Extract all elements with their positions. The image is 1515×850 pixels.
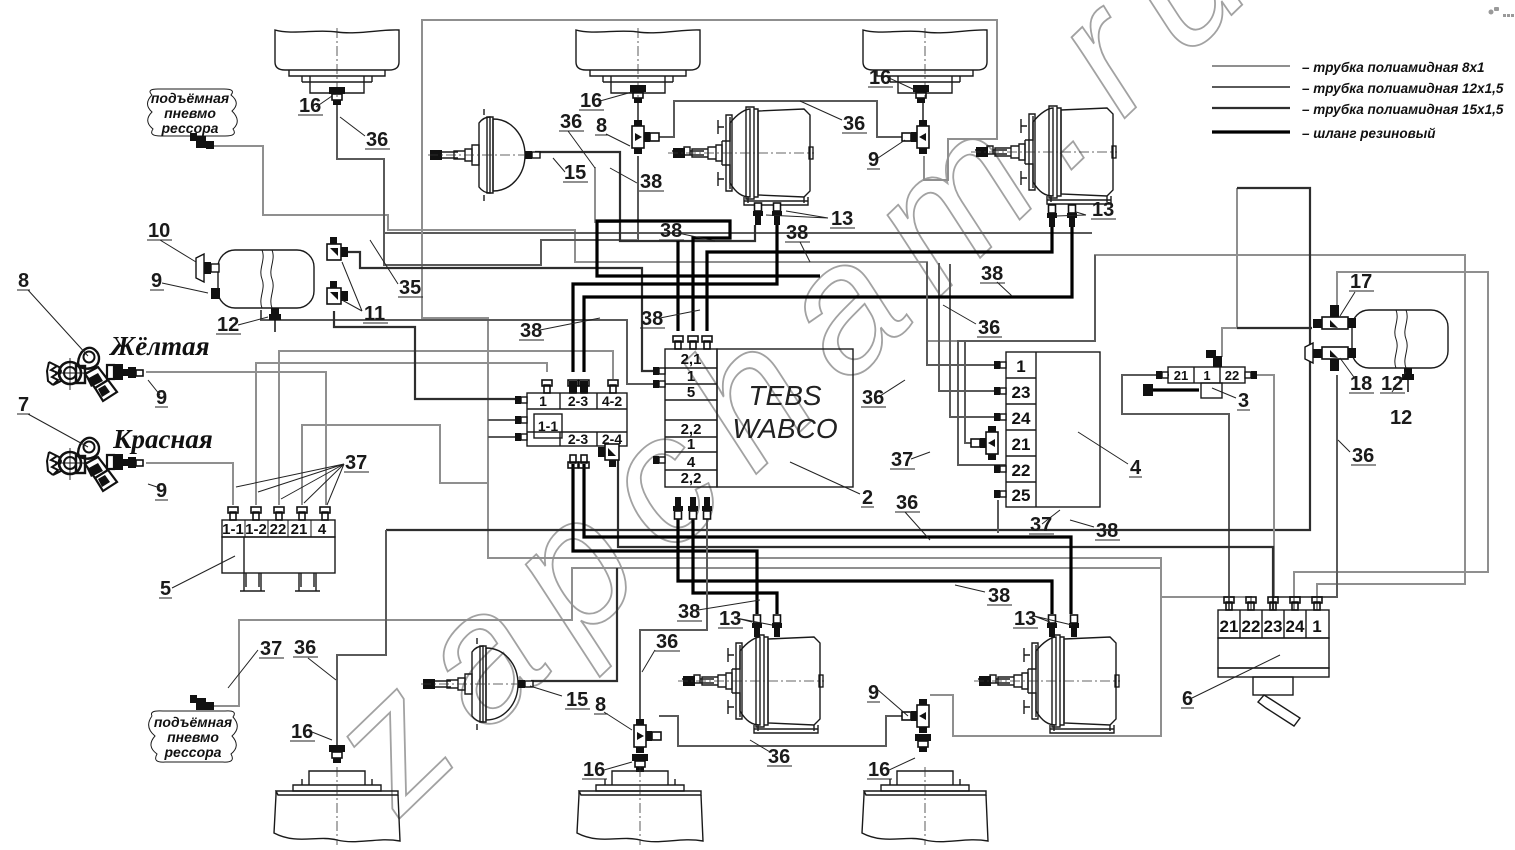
pipe gray to TEBS port 5 (261, 310, 657, 384)
svg-text:38: 38 (786, 222, 808, 244)
spring chamber top right (971, 106, 1117, 204)
svg-text:12: 12 (1390, 407, 1412, 429)
svg-text:37: 37 (260, 638, 282, 660)
svg-text:9: 9 (156, 480, 167, 502)
tank right drain 12 (1402, 368, 1414, 392)
svg-text:1-2: 1-2 (245, 521, 267, 538)
svg-text:– трубка полиамидная 12х1,5: – трубка полиамидная 12х1,5 (1302, 81, 1504, 96)
svg-text:36: 36 (560, 111, 582, 133)
svg-text:9: 9 (868, 682, 879, 704)
logo dots top right (1489, 7, 1515, 17)
pipe block bottom to bottom mid chamber port1 (573, 464, 757, 614)
svg-text:8: 8 (596, 115, 607, 137)
svg-text:16: 16 (869, 67, 891, 89)
coupling head red 7 (47, 438, 143, 491)
air tank left (218, 250, 314, 308)
pillar 13 top middle chamber (753, 203, 763, 225)
pillar 13 top right chamber (1047, 205, 1057, 227)
pipe block stub to top right chamber port2 (584, 225, 1072, 372)
svg-text:10: 10 (148, 220, 170, 242)
svg-text:37: 37 (345, 452, 367, 474)
diaphragm chamber bottom left 15 (421, 638, 533, 730)
pipe valve3 top elbow to tee17 (1222, 188, 1312, 357)
svg-text:25: 25 (1012, 486, 1031, 505)
pipe block stub to top right chamber port1 (573, 225, 777, 372)
svg-text:2: 2 (862, 487, 873, 509)
pipe elbow11 lower to block port1 (334, 311, 527, 399)
oval callout bottom (149, 711, 238, 762)
air bellows middle (576, 28, 700, 98)
wheel drum bottom right (862, 767, 988, 845)
svg-text:38: 38 (660, 220, 682, 242)
svg-text:2-3: 2-3 (568, 431, 588, 447)
svg-text:36: 36 (768, 746, 790, 768)
svg-text:9: 9 (151, 270, 162, 292)
svg-text:– шланг резиновый: – шланг резиновый (1302, 126, 1436, 141)
svg-text:пневмо: пневмо (167, 729, 219, 745)
svg-text:21: 21 (1174, 368, 1188, 383)
fitting 16 bottom left drum (329, 745, 345, 763)
tank fitting 9 (211, 288, 220, 299)
diaphragm chamber top left 15 (428, 109, 540, 201)
svg-text:36: 36 (294, 637, 316, 659)
svg-text:7: 7 (18, 394, 29, 416)
park valve 6 (1218, 597, 1329, 726)
tank right tee 18 (1305, 343, 1356, 371)
svg-text:21: 21 (1220, 617, 1239, 636)
pipe 36 middle-right bellows bus (638, 101, 923, 137)
pipe bottom mid chamber15 line (531, 568, 617, 681)
svg-text:13: 13 (1092, 199, 1114, 221)
svg-text:16: 16 (583, 759, 605, 781)
tee 9 right top (902, 120, 929, 154)
svg-text:2-3: 2-3 (568, 393, 588, 409)
pipe valve3 left port line (1122, 375, 1229, 610)
tee 8 bottom middle (634, 719, 661, 753)
pipe gray stub 36 near chamber15 (595, 167, 638, 240)
svg-text:– трубка полиамидная 15х1,5: – трубка полиамидная 15х1,5 (1302, 102, 1504, 117)
tank fitting 10 (196, 254, 219, 282)
pipe TEBS stub3 to top middle chamber port2 (707, 225, 1052, 331)
pipe block left side stubs (488, 420, 515, 437)
tee 8 middle top (632, 120, 659, 154)
pipe valve3 port22 down (1254, 375, 1274, 597)
TEBS modulator 2 (653, 336, 853, 519)
svg-text:5: 5 (687, 384, 695, 401)
svg-text:21: 21 (291, 521, 308, 538)
svg-text:23: 23 (1012, 383, 1031, 402)
svg-text:38: 38 (641, 308, 663, 330)
svg-text:9: 9 (156, 387, 167, 409)
pipe red coupling line to manifold port 1-1 (146, 463, 233, 505)
fitting 16 middle bellows (630, 85, 646, 103)
spring chamber bottom right (974, 635, 1120, 733)
svg-text:35: 35 (399, 277, 421, 299)
spring chamber top middle (668, 107, 814, 205)
fitting 16 bottom right (915, 734, 931, 752)
svg-text:3: 3 (1238, 390, 1249, 412)
svg-text:36: 36 (366, 129, 388, 151)
svg-text:пневмо: пневмо (164, 105, 216, 121)
pipe TEBS stub2 zig to top middle chamber port (597, 221, 820, 331)
pipe manifold riser 21 (302, 425, 488, 505)
svg-text:1-1: 1-1 (222, 521, 244, 538)
svg-text:1: 1 (687, 368, 695, 385)
air tank right (1352, 310, 1448, 368)
pipe tee8 to tee9 link bottom (659, 716, 903, 746)
svg-text:1: 1 (1016, 357, 1025, 376)
pipe 37 lift axle line top (polyamide 8x1) long snake to park valve port 1 (205, 146, 1465, 610)
svg-text:37: 37 (1030, 514, 1052, 536)
svg-text:22: 22 (270, 521, 287, 538)
watermark zapcham.ru (286, 0, 1305, 847)
svg-text:Жёлтая: Жёлтая (108, 331, 209, 361)
manifold 5 (222, 507, 335, 591)
svg-text:38: 38 (678, 601, 700, 623)
svg-text:1: 1 (1312, 617, 1321, 636)
elbow above bottom oval (190, 695, 214, 710)
svg-text:16: 16 (868, 759, 890, 781)
pipe air tank to TEBS port 1 supply (346, 252, 655, 371)
svg-text:21: 21 (1012, 435, 1031, 454)
svg-text:38: 38 (1096, 520, 1118, 542)
svg-text:22: 22 (1012, 461, 1031, 480)
pipe manifold riser 1-2 to block top (256, 363, 547, 505)
svg-text:подъёмная: подъёмная (151, 90, 229, 106)
svg-text:22: 22 (1225, 368, 1239, 383)
tank right tee 17 (1313, 305, 1356, 329)
svg-text:13: 13 (1014, 608, 1036, 630)
svg-text:4-2: 4-2 (602, 393, 622, 409)
spring chamber bottom middle (678, 635, 824, 733)
svg-text:24: 24 (1286, 617, 1305, 636)
coupling head yellow 8 (47, 348, 143, 401)
pipe yellow coupling line to manifold port 4 (146, 372, 326, 505)
svg-text:4: 4 (687, 454, 696, 471)
svg-text:– трубка полиамидная 8х1: – трубка полиамидная 8х1 (1302, 60, 1485, 75)
svg-text:1: 1 (1203, 368, 1210, 383)
valve 3 (1143, 350, 1257, 398)
valve block 4 (971, 352, 1100, 507)
svg-text:подъёмная: подъёмная (154, 714, 232, 730)
svg-text:16: 16 (291, 721, 313, 743)
svg-text:12: 12 (217, 314, 239, 336)
pipe bottom left oval 37 line (205, 568, 1161, 736)
svg-text:16: 16 (580, 90, 602, 112)
wheel drum bottom middle (577, 767, 703, 845)
pipe chamber15 top to TEBS 2.1 (535, 152, 755, 241)
svg-text:36: 36 (896, 492, 918, 514)
tee 9 bottom right (902, 699, 929, 733)
svg-text:11: 11 (364, 303, 385, 325)
pipe dark 15x1.5 from bottom drum line along mid band to tee17 (386, 188, 1312, 530)
svg-text:5: 5 (160, 578, 171, 600)
svg-text:2,1: 2,1 (681, 351, 702, 368)
distribution block (515, 380, 627, 468)
pillar 13 bottom right chamber (1047, 615, 1057, 637)
svg-text:38: 38 (640, 171, 662, 193)
svg-text:TEBS: TEBS (748, 380, 821, 411)
svg-text:13: 13 (719, 608, 741, 630)
svg-text:2,2: 2,2 (681, 470, 702, 487)
pipe bottom left drum 36 (337, 530, 386, 745)
pipe TEBS bottom to bottom right chamber port2 (678, 505, 1052, 614)
elbow under top oval (190, 133, 214, 149)
svg-text:36: 36 (656, 631, 678, 653)
svg-text:38: 38 (981, 263, 1003, 285)
svg-text:36: 36 (843, 113, 865, 135)
svg-text:23: 23 (1264, 617, 1283, 636)
svg-text:36: 36 (978, 317, 1000, 339)
pipe 36 left bellows line (337, 103, 1092, 233)
svg-text:38: 38 (988, 585, 1010, 607)
pipe tee18 down 36 (1274, 375, 1337, 597)
svg-text:22: 22 (1242, 617, 1261, 636)
svg-text:36: 36 (862, 387, 884, 409)
pipe block bottom to bottom right chamber port1 (584, 464, 1071, 614)
pipe TEBS 2.1 riser to tee (676, 241, 679, 331)
svg-text:15: 15 (564, 162, 586, 184)
svg-text:36: 36 (1352, 445, 1374, 467)
tank drain 12 (269, 308, 281, 332)
pipe TEBS bottom to bottom mid chamber port2 (693, 505, 777, 614)
pipe middle bellows branch to left bellows line (384, 156, 638, 265)
pipe park valve port22 up (1161, 597, 1251, 610)
svg-text:38: 38 (520, 320, 542, 342)
wheel drum bottom left (274, 767, 400, 845)
svg-text:1: 1 (539, 393, 547, 409)
svg-text:37: 37 (891, 449, 913, 471)
pipe park valve port23 from block elbow dark (618, 459, 1273, 610)
pipe tee17 up over to park valve port 24 (1294, 272, 1488, 610)
svg-text:9: 9 (868, 149, 879, 171)
tank elbow 11 lower (327, 281, 348, 304)
svg-text:6: 6 (1182, 688, 1193, 710)
pipe valve4 feeders (927, 255, 1095, 533)
oval callout top: подъёмная пневморессора (148, 89, 238, 136)
fitting 16 left bellows (329, 87, 345, 105)
pipe TEBS bottom to tee8 bottom (640, 505, 707, 719)
svg-text:4: 4 (318, 521, 327, 538)
svg-text:17: 17 (1350, 271, 1372, 293)
svg-text:15: 15 (566, 689, 588, 711)
svg-text:13: 13 (831, 208, 853, 230)
air bellows right (863, 28, 987, 98)
svg-text:1-1: 1-1 (538, 418, 558, 434)
svg-text:WABCO: WABCO (732, 413, 837, 444)
pillar 13 bottom mid chamber (752, 615, 762, 637)
svg-text:4: 4 (1130, 457, 1142, 479)
air bellows left (275, 28, 399, 98)
svg-text:Красная: Красная (112, 424, 213, 454)
tank elbow 11 upper (327, 237, 348, 260)
fitting 16 bottom middle (632, 754, 648, 772)
fitting 16 right bellows (913, 85, 929, 103)
svg-text:рессора: рессора (161, 120, 219, 136)
svg-text:8: 8 (18, 270, 29, 292)
pipe manifold riser 22 (279, 351, 613, 505)
pipe right mid riser to bus (939, 263, 1006, 417)
pipe big gray supply loop to park valve port 21 (422, 20, 1161, 574)
svg-text:1: 1 (687, 436, 695, 453)
svg-text:24: 24 (1012, 409, 1031, 428)
svg-text:рессора: рессора (164, 744, 222, 760)
